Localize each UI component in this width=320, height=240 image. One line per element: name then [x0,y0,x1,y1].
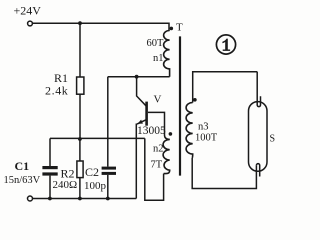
svg-text:C1: C1 [15,159,30,173]
svg-text:T: T [176,22,183,34]
svg-text:C2: C2 [85,165,99,179]
svg-text:+24V: +24V [14,4,42,18]
svg-text:240Ω: 240Ω [53,179,78,191]
svg-text:n3: n3 [198,122,209,133]
svg-text:100T: 100T [195,133,218,144]
svg-text:S: S [270,134,276,145]
svg-text:15n/63V: 15n/63V [4,175,41,186]
svg-text:7T: 7T [151,160,163,171]
svg-text:n1: n1 [153,53,164,64]
svg-text:V: V [154,94,162,106]
svg-text:2.4k: 2.4k [45,84,68,98]
svg-text:13005: 13005 [137,125,166,137]
svg-text:60T: 60T [147,38,165,49]
svg-text:n2: n2 [153,144,164,155]
svg-text:100p: 100p [84,180,107,192]
